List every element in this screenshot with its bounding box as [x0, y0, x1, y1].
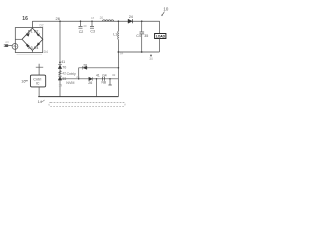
- svg-text:C2: C2: [79, 30, 84, 34]
- svg-text:D4: D4: [34, 46, 39, 50]
- svg-text:D3: D3: [28, 46, 33, 50]
- svg-text:40: 40: [83, 24, 87, 28]
- svg-text:18: 18: [91, 16, 95, 20]
- svg-text:D2: D2: [34, 29, 39, 33]
- svg-text:IC: IC: [36, 81, 40, 85]
- svg-text:NVM: NVM: [66, 81, 74, 85]
- svg-text:28: 28: [83, 63, 87, 67]
- svg-text:16: 16: [21, 79, 25, 83]
- svg-text:84: 84: [120, 51, 124, 55]
- svg-text:30: 30: [149, 57, 153, 61]
- svg-text:32: 32: [112, 73, 116, 77]
- svg-text:LOAD: LOAD: [156, 35, 166, 39]
- svg-text:41: 41: [61, 60, 65, 64]
- svg-text:42: 42: [62, 72, 66, 76]
- svg-text:D4: D4: [44, 50, 48, 54]
- svg-text:35: 35: [144, 34, 148, 38]
- svg-text:16: 16: [22, 16, 28, 22]
- svg-text:D1: D1: [28, 29, 33, 33]
- svg-text:26: 26: [88, 81, 92, 85]
- svg-text:26: 26: [56, 16, 61, 21]
- svg-text:NB: NB: [102, 80, 107, 84]
- svg-text:14: 14: [38, 100, 42, 104]
- svg-text:C4: C4: [136, 34, 141, 38]
- svg-text:41: 41: [96, 73, 100, 77]
- svg-text:24: 24: [129, 15, 133, 19]
- svg-text:10: 10: [163, 7, 168, 12]
- svg-text:D2: D2: [40, 23, 44, 27]
- svg-text:G4: G4: [102, 73, 107, 77]
- svg-text:39: 39: [59, 83, 63, 87]
- svg-text:C3: C3: [90, 30, 95, 34]
- svg-text:Cntrly: Cntrly: [67, 72, 76, 76]
- svg-text:L1: L1: [113, 33, 117, 37]
- svg-text:70: 70: [62, 65, 66, 69]
- svg-text:AC: AC: [5, 40, 9, 44]
- svg-text:26: 26: [76, 75, 80, 79]
- svg-text:20: 20: [100, 16, 104, 20]
